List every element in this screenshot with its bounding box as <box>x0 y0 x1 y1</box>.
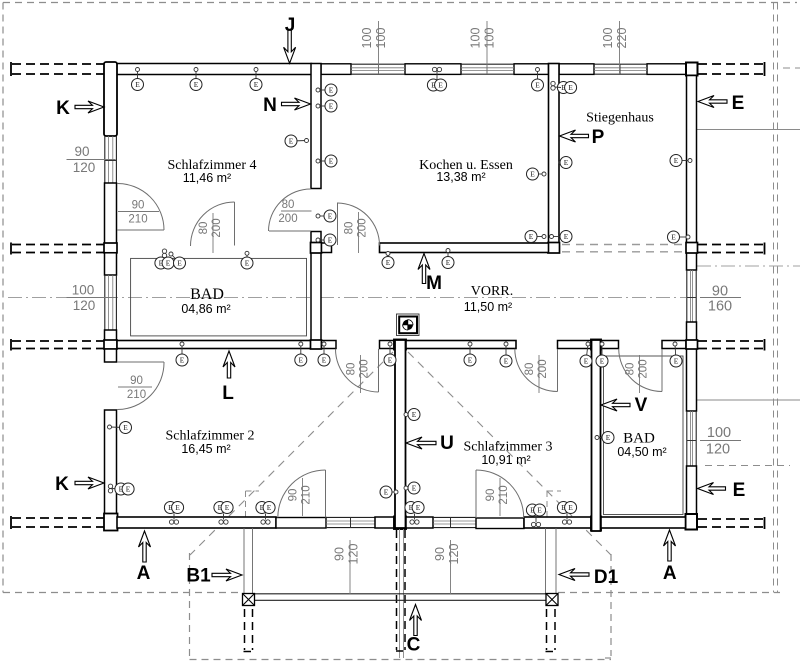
svg-text:200: 200 <box>278 213 297 225</box>
svg-text:90: 90 <box>288 489 300 502</box>
svg-text:100: 100 <box>707 425 731 441</box>
svg-text:N: N <box>263 95 277 116</box>
svg-text:E: E <box>245 259 250 268</box>
svg-text:E: E <box>504 357 509 366</box>
svg-text:E: E <box>329 157 334 166</box>
svg-text:80: 80 <box>198 222 210 235</box>
svg-text:16,45 m²: 16,45 m² <box>181 442 230 456</box>
svg-text:E: E <box>386 258 391 267</box>
svg-text:E: E <box>412 410 417 419</box>
svg-text:E: E <box>126 485 131 494</box>
svg-text:90: 90 <box>132 200 145 212</box>
svg-text:E: E <box>225 503 230 512</box>
svg-text:90: 90 <box>433 547 447 561</box>
svg-text:E: E <box>175 503 180 512</box>
svg-text:80: 80 <box>282 199 295 211</box>
svg-text:E: E <box>564 232 569 241</box>
svg-text:80: 80 <box>625 363 637 376</box>
svg-text:U: U <box>440 433 454 454</box>
svg-text:A: A <box>137 563 151 584</box>
svg-text:K: K <box>56 98 70 119</box>
svg-text:E: E <box>529 232 534 241</box>
svg-text:E: E <box>530 170 535 179</box>
svg-text:E: E <box>328 236 333 245</box>
svg-text:90: 90 <box>74 144 89 159</box>
svg-text:11,50 m²: 11,50 m² <box>464 300 512 314</box>
svg-text:E: E <box>194 80 199 89</box>
svg-text:M: M <box>426 273 442 294</box>
svg-text:120: 120 <box>447 544 461 565</box>
svg-text:E: E <box>671 233 676 242</box>
svg-text:E: E <box>166 259 171 268</box>
svg-text:E: E <box>177 259 182 268</box>
svg-text:10,91 m²: 10,91 m² <box>481 453 530 467</box>
svg-text:100: 100 <box>72 283 95 298</box>
svg-text:160: 160 <box>708 299 732 315</box>
svg-text:C: C <box>407 635 421 656</box>
svg-text:100: 100 <box>374 28 388 49</box>
svg-text:L: L <box>222 383 234 404</box>
svg-text:E: E <box>568 83 573 92</box>
svg-text:E: E <box>135 80 140 89</box>
svg-text:E: E <box>329 102 334 111</box>
svg-text:A: A <box>663 563 677 584</box>
svg-text:E: E <box>412 484 417 493</box>
svg-text:90: 90 <box>333 547 347 561</box>
svg-text:E: E <box>180 356 185 365</box>
svg-text:120: 120 <box>73 160 96 175</box>
svg-text:80: 80 <box>344 222 356 235</box>
svg-text:E: E <box>468 356 473 365</box>
svg-text:E: E <box>123 423 128 432</box>
svg-text:B1: B1 <box>186 566 211 587</box>
svg-text:220: 220 <box>615 28 629 49</box>
svg-text:120: 120 <box>706 442 730 458</box>
svg-text:11,46 m²: 11,46 m² <box>183 171 231 185</box>
svg-text:V: V <box>635 395 648 416</box>
svg-text:E: E <box>535 81 540 90</box>
svg-text:210: 210 <box>127 389 146 401</box>
svg-text:E: E <box>733 480 746 501</box>
svg-text:E: E <box>384 488 389 497</box>
svg-text:100: 100 <box>469 28 483 49</box>
svg-text:E: E <box>564 158 569 167</box>
svg-text:E: E <box>299 356 304 365</box>
svg-text:E: E <box>416 503 421 512</box>
svg-text:100: 100 <box>360 28 374 49</box>
svg-text:E: E <box>674 156 679 165</box>
svg-text:120: 120 <box>347 544 361 565</box>
svg-text:E: E <box>537 506 542 515</box>
svg-text:90: 90 <box>130 375 143 387</box>
svg-text:BAD: BAD <box>190 286 224 303</box>
svg-text:E: E <box>254 80 259 89</box>
svg-text:Stiegenhaus: Stiegenhaus <box>586 111 654 126</box>
svg-text:E: E <box>568 503 573 512</box>
svg-text:80: 80 <box>346 363 358 376</box>
svg-text:E: E <box>388 356 393 365</box>
svg-text:E: E <box>600 357 605 366</box>
svg-text:90: 90 <box>485 489 497 502</box>
svg-text:VORR.: VORR. <box>471 284 513 299</box>
svg-text:80: 80 <box>524 363 536 376</box>
svg-text:E: E <box>289 137 294 146</box>
svg-text:E: E <box>322 356 327 365</box>
svg-text:K: K <box>55 474 69 495</box>
svg-text:E: E <box>606 433 611 442</box>
svg-text:E: E <box>584 357 589 366</box>
svg-text:100: 100 <box>601 28 615 49</box>
svg-text:210: 210 <box>128 214 147 226</box>
svg-text:P: P <box>592 127 605 148</box>
svg-text:D1: D1 <box>594 567 619 588</box>
svg-text:120: 120 <box>73 298 96 313</box>
svg-text:E: E <box>328 212 333 221</box>
svg-text:E: E <box>267 503 272 512</box>
svg-text:E: E <box>446 258 451 267</box>
svg-text:100: 100 <box>483 28 497 49</box>
svg-text:E: E <box>438 81 443 90</box>
svg-text:04,86 m²: 04,86 m² <box>181 302 230 316</box>
svg-text:04,50 m²: 04,50 m² <box>617 445 666 459</box>
svg-text:E: E <box>732 93 745 114</box>
svg-text:E: E <box>674 357 679 366</box>
svg-text:13,38 m²: 13,38 m² <box>436 170 485 184</box>
svg-text:E: E <box>329 86 334 95</box>
